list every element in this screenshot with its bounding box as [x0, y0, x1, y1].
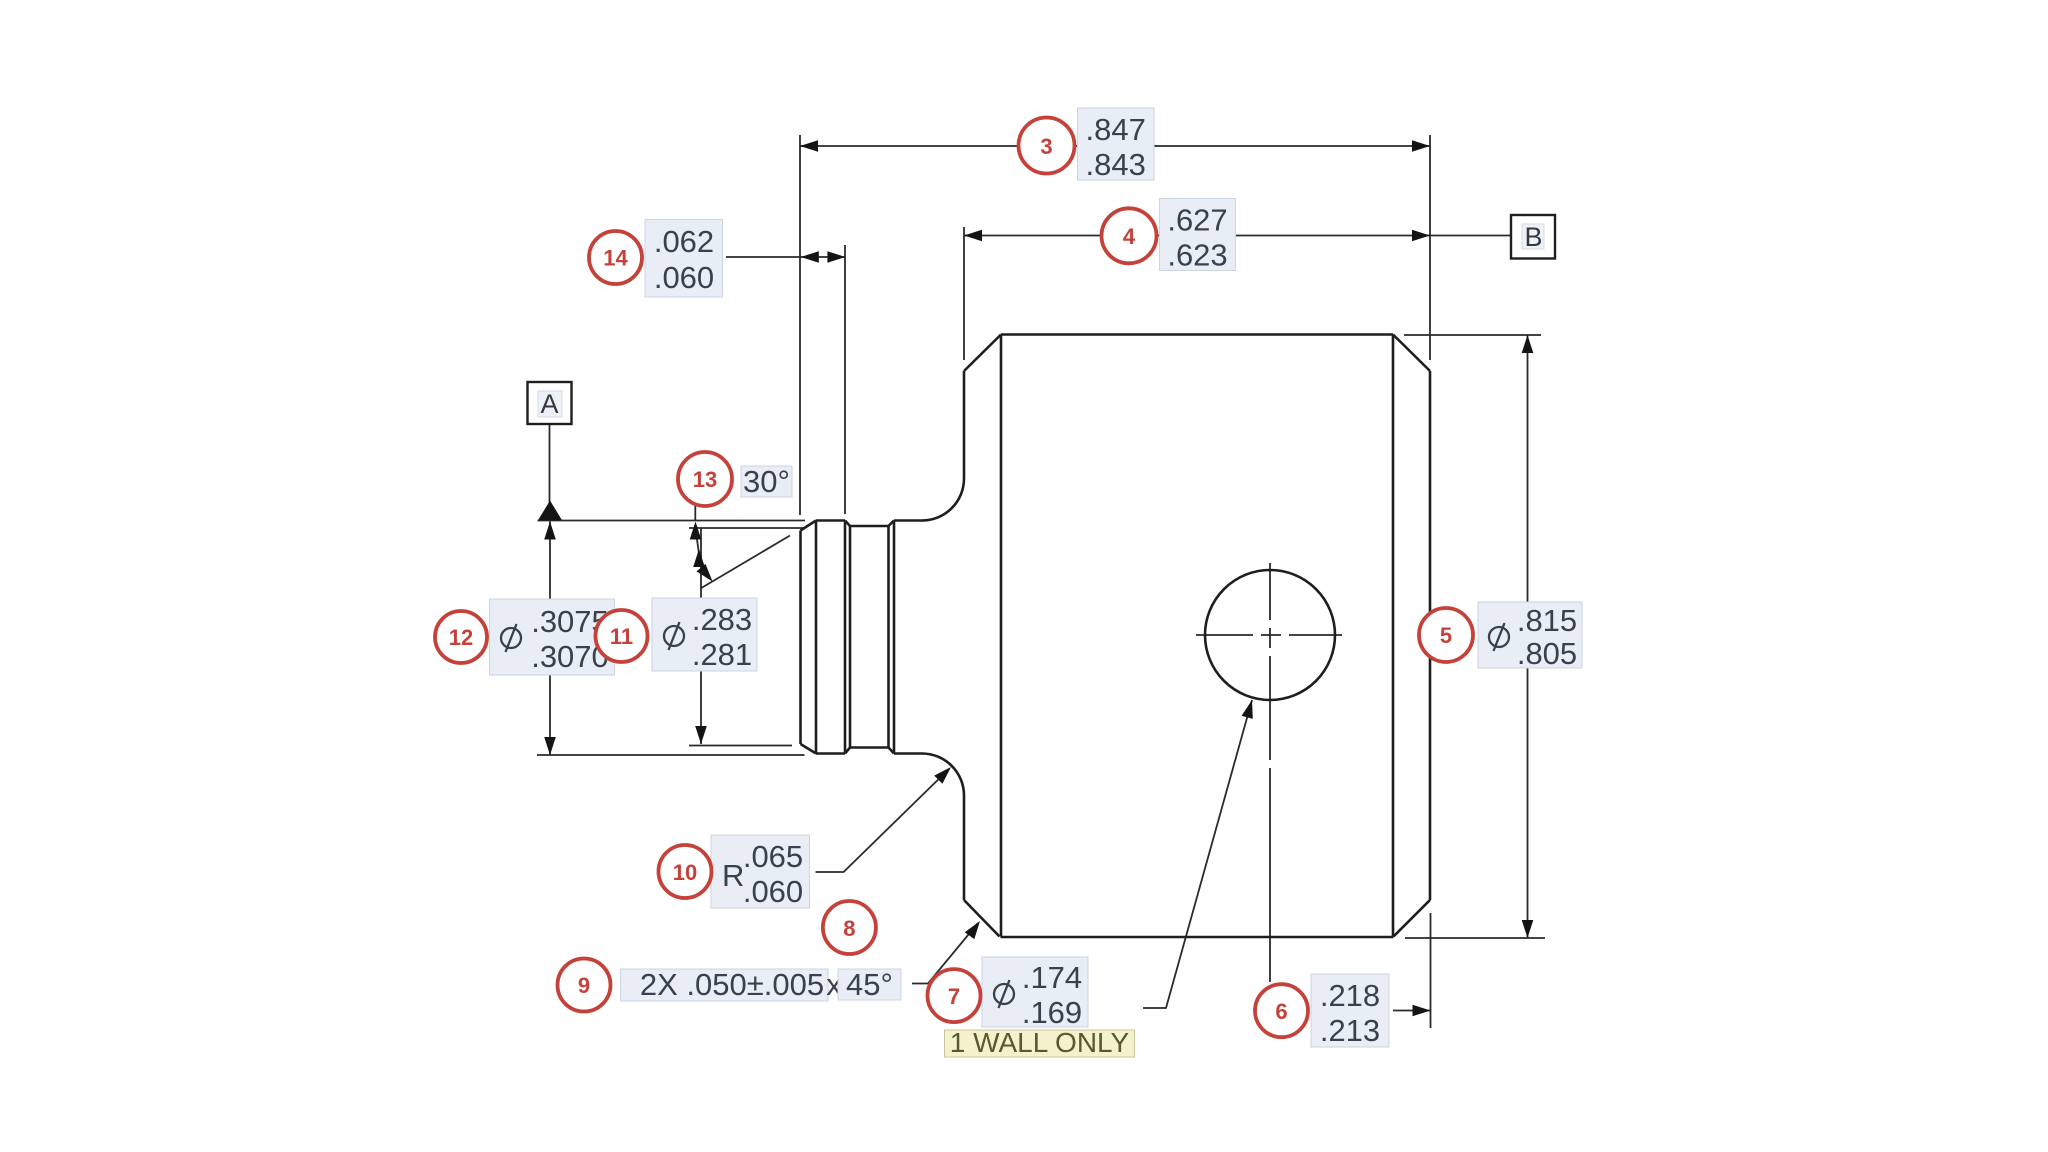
balloon 5: [1419, 608, 1473, 662]
part outline: spigot left face: [799, 531, 802, 745]
arrowhead dim 13 upper: [690, 522, 702, 540]
part outline: land bottom right: [894, 752, 923, 755]
balloon 12: [435, 611, 487, 663]
part outline: groove right top slant: [889, 521, 895, 527]
extension line spigot bottom (dim 12): [537, 754, 805, 756]
balloon 9: [558, 959, 611, 1012]
svg-text:12: 12: [449, 625, 473, 650]
svg-text:.174: .174: [1022, 960, 1082, 995]
dimension line 6 (.218/.213): [1393, 1010, 1431, 1012]
balloon 14: [589, 231, 642, 284]
part outline: body left face lower: [963, 796, 966, 901]
svg-text:30°: 30°: [743, 464, 790, 499]
extension line left (x=800, dims 3 and 14): [799, 135, 801, 515]
hole vertical centerline center dash: [1269, 628, 1271, 648]
svg-text:4: 4: [1123, 224, 1136, 249]
arrowhead dim 5 top: [1522, 335, 1534, 353]
dimension line 4 (.627/.623): [964, 235, 1430, 237]
part outline: cross hole circle: [1205, 570, 1335, 700]
arrowhead hole leader (callout 7): [1242, 700, 1253, 719]
dim 6 value box .218/.213: [1311, 974, 1389, 1047]
svg-text:45°: 45°: [846, 967, 893, 1002]
balloon 11: [596, 610, 648, 662]
part outline: body top-left chamfer: [964, 335, 1001, 372]
dim 5 value box diameter .815/.805: [1478, 602, 1582, 668]
dimension line 3 (.847/.843 overall length): [800, 145, 1430, 147]
extension line groove bottom (dim 11): [689, 745, 792, 747]
part outline: body right chamfer circle line: [1392, 336, 1395, 937]
arrowhead dim 13 slant: [697, 564, 713, 582]
dim 13 connector between arrows: [697, 536, 701, 564]
extension line groove left wall (x=845, dim 14): [844, 245, 846, 514]
arrowhead dim 6 right: [1413, 1005, 1431, 1017]
hole horizontal centerline dash 1: [1196, 634, 1253, 636]
svg-text:.623: .623: [1167, 238, 1227, 273]
svg-text:14: 14: [603, 246, 628, 271]
svg-text:.060: .060: [743, 874, 803, 909]
svg-text:.060: .060: [654, 260, 714, 295]
part outline: spigot bottom face chamfer: [801, 744, 817, 754]
svg-text:B: B: [1524, 222, 1542, 252]
hole horizontal centerline dash 3: [1289, 634, 1342, 636]
svg-text:7: 7: [948, 984, 960, 1009]
svg-text:.805: .805: [1517, 636, 1577, 671]
datum B connector line: [1430, 235, 1511, 237]
dim 13 slanted 30-degree reference line: [701, 536, 791, 589]
part outline: spigot top face chamfer: [801, 521, 817, 531]
extension line groove top (dim 11 / 13): [689, 527, 804, 529]
extension line right face (x=1430, dims 3 and 4): [1429, 135, 1431, 360]
arrowhead dim 14 left: [801, 251, 819, 263]
datum A stem: [549, 424, 551, 503]
part outline: groove bottom: [850, 746, 889, 749]
balloon 4: [1102, 208, 1157, 263]
part outline: body left chamfer circle line: [1000, 336, 1003, 937]
part outline: body left face upper: [963, 371, 966, 479]
svg-text:5: 5: [1440, 623, 1452, 648]
dim 9 value box 45 degrees: [838, 969, 901, 1000]
dim 3 value box .847/.843: [1078, 108, 1155, 180]
svg-text:9: 9: [578, 973, 590, 998]
arrowhead chamfer leader (callout 9): [965, 921, 980, 939]
arrowhead dim 11 bottom: [695, 726, 707, 744]
svg-text:.283: .283: [692, 602, 752, 637]
part outline: groove right wall outer: [893, 521, 896, 754]
svg-text:.169: .169: [1022, 995, 1082, 1030]
svg-text:.627: .627: [1167, 203, 1227, 238]
svg-text:2X .050±.005: 2X .050±.005: [640, 967, 824, 1002]
svg-text:1 WALL ONLY: 1 WALL ONLY: [950, 1027, 1130, 1058]
leader for callout 10 to fillet: [816, 770, 949, 872]
part outline: groove left wall inner: [849, 526, 852, 748]
datum A filled triangle: [538, 501, 562, 521]
extension line top for dim 5: [1404, 334, 1541, 336]
part outline: groove left bottom slant: [845, 748, 850, 754]
dim 7 value box diameter .174/.169: [982, 957, 1088, 1027]
part outline: groove left wall outer: [844, 521, 847, 754]
svg-text:.218: .218: [1320, 978, 1380, 1013]
leader for callout 7 to hole: [1143, 700, 1252, 1008]
svg-text:.062: .062: [654, 224, 714, 259]
svg-text:11: 11: [610, 624, 633, 649]
balloon 10: [659, 845, 712, 898]
dim 11 value box diameter .283/.281: [652, 598, 757, 671]
part outline: land bottom left: [816, 752, 845, 755]
part outline: fillet top (R.065): [922, 479, 964, 521]
svg-text:.843: .843: [1086, 147, 1146, 182]
part outline: body top-right chamfer: [1393, 335, 1430, 372]
balloon 8: [823, 901, 876, 954]
part outline: body top edge: [1001, 333, 1393, 336]
arrowhead dim 14 right: [827, 251, 845, 263]
arrowhead dim 3 left: [800, 140, 818, 152]
part outline: land top left: [816, 519, 845, 522]
part outline: body bottom-left chamfer: [964, 900, 1000, 937]
svg-text:.281: .281: [692, 637, 752, 672]
dim 10 value box R.065/.060: [711, 835, 810, 908]
svg-text:.213: .213: [1320, 1013, 1380, 1048]
svg-text:10: 10: [673, 860, 697, 885]
extension line body left face (x=964, dim 4): [963, 227, 965, 360]
dim 12 value box diameter .3075/.3070: [490, 599, 615, 675]
part outline: spigot chamfer circle line: [815, 521, 818, 754]
dim 9 value box 2X .050 +/-.005: [621, 969, 829, 1001]
arrowhead dim 13 second up: [693, 549, 705, 567]
arrowhead dim 12 top: [544, 522, 556, 540]
part outline: fillet bottom (R.065): [922, 754, 964, 796]
part outline: body bottom edge: [1001, 936, 1394, 939]
arrowhead dim 4 right: [1412, 230, 1430, 242]
dim 13 value box 30 degrees: [741, 466, 792, 497]
leader for callout 9 to chamfer: [912, 923, 978, 984]
balloon 6: [1255, 984, 1308, 1037]
hole vertical centerline dash 3: [1269, 656, 1271, 760]
extension line spigot top (datum A / dim 12): [538, 520, 806, 522]
part outline: groove left top slant: [845, 521, 850, 527]
part outline: groove right wall inner: [887, 526, 890, 748]
part outline: groove top: [850, 525, 889, 528]
dimension line 11 (vertical, diameter .283/.281): [700, 528, 702, 744]
extension line for dim 6 (x=1430.5 below part): [1430, 913, 1432, 1028]
part outline: groove right bottom slant: [889, 748, 895, 754]
dimension line 14 (.062/.060): [726, 256, 845, 258]
dim 4 value box .627/.623: [1160, 199, 1236, 271]
svg-text:.065: .065: [743, 839, 803, 874]
datum B frame: [1511, 215, 1555, 259]
svg-text:8: 8: [843, 916, 855, 941]
datum A frame: [528, 382, 572, 424]
arrowhead dim 4 left: [964, 230, 982, 242]
part outline: land top right: [894, 519, 923, 522]
note box 1 WALL ONLY: [945, 1030, 1135, 1057]
balloon 13 stem: [694, 506, 696, 520]
hole horizontal centerline center dash: [1261, 634, 1281, 636]
svg-text:6: 6: [1275, 999, 1287, 1024]
arrowhead fillet leader (callout 10): [934, 767, 951, 784]
extension line bottom for dim 5: [1405, 937, 1545, 939]
svg-text:13: 13: [693, 467, 717, 492]
svg-text:.815: .815: [1517, 603, 1577, 638]
part outline: body right face: [1429, 371, 1432, 900]
svg-text:.847: .847: [1086, 112, 1146, 147]
svg-text:R: R: [722, 858, 744, 893]
svg-text:3: 3: [1040, 134, 1052, 159]
arrowhead dim 3 right: [1412, 140, 1430, 152]
arrowhead dim 5 bottom: [1522, 920, 1534, 938]
balloon 3: [1019, 118, 1075, 174]
balloon 7: [928, 969, 981, 1022]
hole vertical centerline extension to dim 6: [1269, 768, 1271, 982]
hole vertical centerline dash 1: [1269, 563, 1271, 620]
arrowhead dim 12 bottom: [544, 737, 556, 755]
dimension line 5 (vertical, diameter .815/.805): [1527, 335, 1529, 938]
balloon 13: [678, 452, 732, 506]
dimension line 12 (vertical, diameter .3075/.3070): [549, 522, 551, 756]
dim 14 value box .062/.060: [645, 220, 723, 298]
svg-text:A: A: [540, 389, 558, 419]
part outline: body bottom-right chamfer: [1394, 900, 1431, 937]
